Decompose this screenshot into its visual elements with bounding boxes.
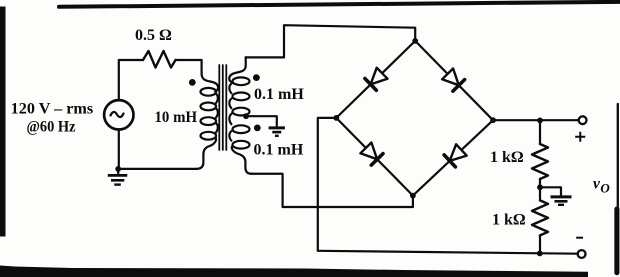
terminal plus (579, 116, 587, 124)
svg-text:1 kΩ: 1 kΩ (492, 212, 526, 229)
svg-text:0.5 Ω: 0.5 Ω (135, 27, 172, 44)
junction dot load bottom (537, 251, 543, 257)
resistor R2 1k (532, 200, 548, 235)
junction dot bridge top node (412, 38, 418, 44)
dot primary polarity (189, 79, 196, 86)
transformer core (218, 65, 220, 150)
wire bottom rail to minus terminal (318, 251, 578, 254)
junction dot bridge bottom node (410, 193, 416, 199)
svg-text:0.1 mH: 0.1 mH (254, 142, 304, 159)
wire load top (539, 120, 541, 144)
dot secondary bottom polarity (254, 125, 261, 132)
plus sign (575, 132, 585, 142)
wire resistor to primary (176, 60, 202, 74)
wire bridge right node to bottom node (413, 120, 493, 195)
wire R1 to mid node (539, 179, 541, 187)
wire bridge top node to right node (415, 41, 493, 120)
wire bridge left node to bottom node (336, 118, 413, 196)
wire secondary bottom to bridge bottom node (251, 174, 413, 207)
junction dot bridge left node (333, 115, 339, 121)
svg-text:1 kΩ: 1 kΩ (490, 149, 524, 166)
transformer primary coil 10mH (202, 74, 219, 91)
wire left node down to bottom rail (318, 118, 337, 251)
terminal minus (578, 250, 586, 258)
diode D4 bottom-right (444, 144, 467, 167)
junction dot source ground (115, 166, 121, 172)
wire secondary top to bridge top node (246, 25, 416, 57)
svg-text:vO: vO (593, 176, 610, 196)
wire R2 to bottom rail (539, 235, 541, 253)
wire mid node to ground (540, 187, 561, 196)
junction dot bridge right node (490, 117, 496, 123)
diode D2 top-right (442, 69, 465, 92)
transformer secondary top coil 0.1mH (229, 57, 245, 82)
wire bridge top node to left node (336, 41, 415, 118)
junction dot mid node (537, 184, 543, 190)
resistor R 0.5ohm (143, 51, 176, 68)
svg-text:@60 Hz: @60 Hz (27, 119, 76, 136)
svg-text:10 mH: 10 mH (155, 109, 198, 126)
svg-text:120 V – rms: 120 V – rms (11, 101, 94, 118)
wire source top to resistor (119, 60, 143, 99)
center tap junction dot (243, 113, 249, 119)
wire right node to plus terminal (493, 119, 579, 121)
wire center tap to ground (246, 116, 277, 125)
source VS 120V rms (104, 100, 133, 129)
dot secondary top polarity (253, 74, 260, 81)
wire mid node to R2 (539, 187, 541, 200)
resistor R1 1k (532, 144, 548, 179)
transformer secondary bottom coil 0.1mH (229, 114, 231, 125)
junction dot load top (537, 118, 543, 124)
wire primary bottom to source bottom (118, 168, 196, 170)
minus sign (576, 237, 583, 239)
ground mid node (551, 195, 572, 198)
ground source (117, 169, 119, 175)
svg-text:0.1 mH: 0.1 mH (254, 86, 304, 103)
ground center tap (269, 126, 285, 129)
diode D1 top-left (365, 68, 388, 91)
diode D3 bottom-left (360, 143, 383, 166)
